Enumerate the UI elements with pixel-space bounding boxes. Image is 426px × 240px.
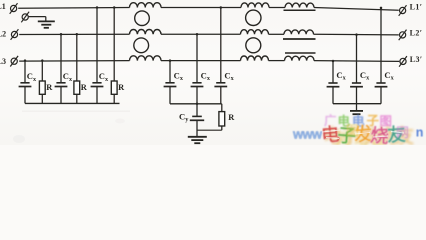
wire L-bank Cx2 upper stub	[60, 34, 62, 83]
wire R-bank Cx1 lower stub	[332, 87, 334, 104]
inductor L1-series winding	[285, 3, 314, 7]
wire L-bank Cx2 lower stub	[60, 87, 62, 104]
wire R-bank Cx1 stub	[332, 61, 334, 83]
wire M-bank Cx1 stub	[169, 61, 171, 83]
wire L2 mid segment	[161, 33, 241, 35]
wire L-bank R2 lower stub	[76, 94, 78, 103]
terminal L3	[10, 56, 18, 67]
ground PE	[38, 21, 55, 27]
wire L-bank R3 lower stub	[113, 94, 115, 103]
wire rail to ground (right)	[356, 104, 358, 111]
wire R-bank Cx3 lower stub	[380, 87, 382, 104]
wire L-bank R2 upper stub	[76, 34, 78, 81]
junction Cx1 tap	[24, 59, 27, 62]
wire R to bottom return	[221, 126, 223, 130]
capacitor Cx (middle bank 3)	[216, 82, 225, 84]
wire bottom return	[197, 129, 222, 131]
svg-text:L2: L2	[0, 29, 6, 38]
terminal L3'	[399, 56, 407, 67]
wire R-bank Cx3 stub	[380, 8, 382, 83]
wire ground drop	[45, 17, 47, 22]
capacitor Cy	[192, 115, 202, 117]
wire R-bank Cx2 stub	[356, 35, 358, 83]
watermark row 2: www	[292, 126, 323, 141]
inductor L2-series winding	[284, 30, 314, 34]
svg-text:www: www	[292, 126, 323, 141]
choke T1 core circle lower	[134, 38, 149, 53]
terminal PE	[21, 12, 29, 23]
wire M-bank Cx2 stub	[196, 34, 198, 83]
choke T2 core circle upper	[246, 10, 261, 25]
wire L2 segment	[269, 33, 285, 35]
wire R-bank Cx2 lower stub	[356, 87, 358, 104]
svg-text:L1: L1	[0, 2, 6, 11]
wire L3 right segment	[314, 60, 399, 63]
watermark .com tail	[416, 126, 424, 140]
capacitor Cx (right bank 2)	[352, 82, 361, 84]
wire left bank star rail	[25, 102, 120, 104]
wire M-bank Cx3 lower stub	[220, 87, 222, 104]
wire Cy to ground	[196, 120, 198, 136]
watermark row 1: colored site name characters	[324, 113, 392, 129]
junction R-bank Cx1 tap	[332, 60, 335, 63]
svg-text:L3′: L3′	[410, 55, 423, 64]
svg-text:R: R	[228, 113, 235, 122]
watermark row 2 shadow layer	[323, 125, 414, 148]
wire L-bank R1 lower stub	[41, 94, 43, 103]
wire rail to R	[221, 104, 223, 112]
watermark white streaks over characters (decorative)	[322, 130, 404, 139]
capacitor Cx (left bank 1)	[20, 82, 29, 84]
junction Cx2 tap	[60, 33, 63, 36]
svg-text:R: R	[118, 83, 125, 92]
wire L-bank Cx1 lower stub	[24, 87, 26, 104]
wire PE to ground	[29, 16, 46, 18]
wire M-bank Cx2 lower stub	[196, 87, 198, 104]
wire L3 left segment	[19, 60, 129, 63]
wire M-bank Cx1 lower stub	[169, 87, 171, 104]
choke T1 winding L3	[130, 56, 162, 61]
wire L2 right segment	[314, 33, 399, 36]
wire L1 segment	[269, 7, 285, 9]
resistor R (left bank 1)	[39, 81, 45, 94]
wire L3 segment	[269, 60, 285, 62]
wire L-bank R3 upper stub	[113, 8, 115, 82]
wire L-bank Cx3 upper stub	[96, 8, 98, 83]
wire rail to Cy	[196, 104, 198, 117]
scan smudges (decorative)	[13, 111, 130, 143]
choke T1 winding L2	[130, 29, 162, 34]
svg-text:L1′: L1′	[410, 2, 423, 11]
wire L-bank R1 upper stub	[41, 61, 43, 81]
junction R3 tap	[113, 6, 116, 9]
capacitor Cx (right bank 3)	[376, 82, 385, 84]
wire L1 left segment	[18, 7, 129, 10]
watermark row 2: fancy colored characters	[320, 123, 407, 147]
wire M-bank Cx3 stub	[220, 8, 222, 83]
capacitor Cx (middle bank 2)	[192, 82, 201, 84]
wire L1 mid segment	[161, 7, 241, 9]
resistor R (left bank 2)	[74, 81, 80, 94]
wire L2 left segment	[19, 33, 129, 35]
junction star point	[196, 103, 199, 106]
watermark overlay accents	[346, 123, 409, 140]
inductor L1-series core bar	[284, 9, 316, 11]
junction M-bank Cx1 tap	[169, 59, 172, 62]
wire L1 right segment	[314, 8, 399, 11]
junction R-bank Cx2 tap	[355, 33, 358, 36]
inductor L2-series core bar	[283, 38, 316, 40]
choke T1 winding L1	[130, 3, 162, 8]
svg-text:R: R	[81, 83, 88, 92]
capacitor Cx (right bank 1)	[328, 82, 337, 84]
terminal L2	[11, 29, 19, 40]
svg-text:图: 图	[346, 123, 359, 138]
resistor R (bleeder, middle)	[219, 112, 225, 126]
junction R1 tap	[41, 59, 44, 62]
svg-text:L3: L3	[0, 57, 6, 66]
svg-text:R: R	[46, 83, 53, 92]
junction M-bank Cx3 tap	[220, 6, 223, 9]
svg-text:n: n	[416, 126, 424, 140]
terminal L1	[10, 3, 18, 14]
choke T2 winding L2	[241, 30, 269, 35]
ground (middle)	[188, 137, 207, 143]
wire L3 mid segment	[161, 60, 241, 62]
inductor L3-series core bar	[285, 52, 316, 54]
capacitor Cx (left bank 2)	[56, 82, 65, 84]
terminal L1'	[399, 5, 407, 16]
capacitor Cx (left bank 3)	[92, 82, 101, 84]
choke T2 winding L1	[241, 3, 269, 8]
junction R2 tap	[76, 33, 79, 36]
wire L-bank Cx1 upper stub	[24, 61, 26, 83]
wire right star rail	[333, 103, 381, 105]
wire middle star rail	[170, 103, 222, 105]
svg-text:L2′: L2′	[410, 29, 423, 38]
wire L-bank Cx3 lower stub	[96, 87, 98, 104]
choke T2 core circle lower	[246, 38, 261, 53]
terminal L2'	[399, 30, 407, 41]
junction M-bank Cx2 tap	[196, 33, 199, 36]
choke T2 winding L3	[241, 56, 269, 61]
ground (right, partly hidden)	[350, 111, 363, 114]
inductor L3-series winding	[285, 56, 315, 60]
junction R-bank Cx3 tap	[380, 7, 383, 9]
junction Cx3 tap	[96, 6, 99, 9]
choke T1 core circle upper	[135, 11, 150, 26]
capacitor Cx (middle bank 1)	[165, 82, 174, 84]
resistor R (left bank 3)	[111, 81, 117, 94]
